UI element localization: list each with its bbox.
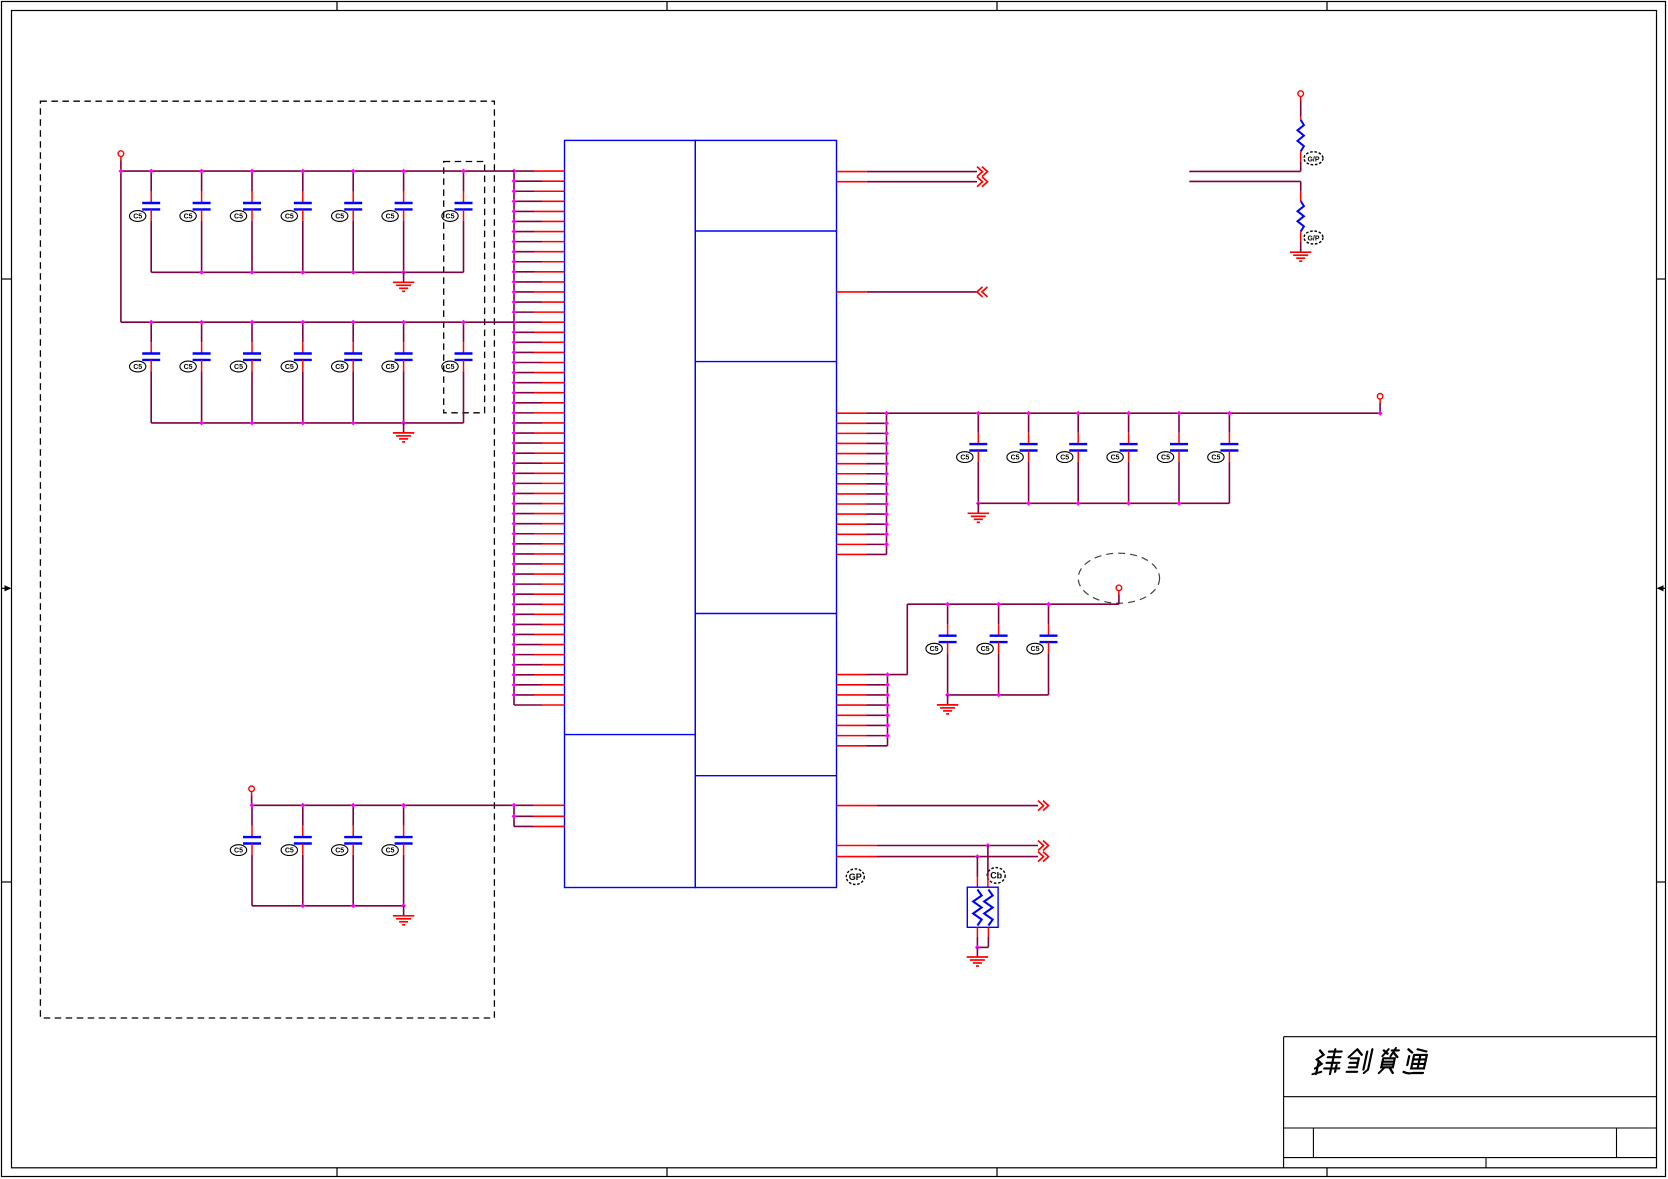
U1 right pin stubs group2	[837, 675, 888, 746]
wire U1 left pin bus chain	[513, 171, 515, 705]
capacitor C2	[180, 171, 211, 272]
junction dots group1	[884, 411, 889, 547]
power node VCC3	[1377, 394, 1383, 400]
dashed sub box (last column caps)	[444, 162, 485, 413]
capacitor C20	[1007, 413, 1038, 503]
capacitor C27	[1027, 604, 1058, 695]
resistor R2	[1298, 181, 1304, 252]
label G/P on R1	[1304, 152, 1323, 165]
capacitor C9	[180, 322, 211, 423]
wire bank6 top bus	[887, 412, 1381, 414]
junction dots bank4	[250, 803, 517, 909]
svg-text:C5: C5	[981, 646, 990, 653]
wire row2 bottom bus	[151, 422, 463, 424]
junction dots row2	[149, 320, 466, 426]
svg-text:C5: C5	[386, 213, 395, 220]
wire net1 to R1	[1189, 170, 1300, 172]
capacitor C14	[442, 322, 473, 423]
svg-text:C5: C5	[234, 848, 243, 855]
ground R2	[1290, 251, 1311, 253]
IC U1 section B dividers	[695, 231, 836, 776]
capacitor C12	[332, 322, 363, 423]
U1 right pin stubs group1	[837, 413, 887, 554]
wire row2 top bus	[121, 321, 514, 323]
wire net6 drop to RN1	[975, 854, 980, 887]
wire output net6	[837, 856, 1039, 858]
wire row1 bottom bus	[151, 271, 463, 273]
capacitor C17	[332, 805, 363, 906]
wire RN1 to ground	[975, 927, 989, 957]
wire output net4	[837, 805, 1039, 807]
label G/P on R2	[1304, 231, 1323, 244]
capacitor C25	[926, 604, 957, 695]
wire row1 left drop to row2	[120, 171, 122, 322]
svg-text:C5: C5	[1211, 455, 1220, 462]
junction dots group2	[885, 672, 890, 738]
junction dots bank6	[976, 411, 1383, 506]
svg-text:C5: C5	[285, 213, 294, 220]
junction row1 corner	[118, 169, 123, 174]
IC U1 section A (left column)	[565, 140, 696, 887]
capacitor C23	[1157, 413, 1188, 503]
svg-text:C5: C5	[234, 364, 243, 371]
IC U1 section B (right column)	[695, 140, 836, 887]
capacitor C13	[382, 322, 413, 423]
junction dots row1	[149, 169, 466, 275]
wire bank4 bottom bus	[252, 905, 404, 907]
wire output net5	[837, 845, 1039, 847]
svg-text:C5: C5	[285, 364, 294, 371]
wire output net2	[837, 181, 978, 183]
svg-text:C5: C5	[1011, 455, 1020, 462]
capacitor C1	[130, 171, 161, 272]
wire bank3 top bus	[907, 603, 1119, 605]
svg-text:C5: C5	[960, 455, 969, 462]
svg-text:C5: C5	[335, 848, 344, 855]
dashed group box (decoupling caps region)	[40, 101, 494, 1018]
svg-text:C5: C5	[930, 646, 939, 653]
IC U1 section A divider	[565, 734, 696, 736]
label Cb	[987, 868, 1005, 884]
svg-text:C5: C5	[386, 848, 395, 855]
off-page connector net5	[1038, 841, 1049, 851]
capacitor C26	[977, 604, 1008, 695]
svg-text:C5: C5	[1111, 455, 1120, 462]
capacitor C11	[281, 322, 312, 423]
power node VCC2	[249, 786, 255, 792]
svg-text:C5: C5	[446, 364, 455, 371]
capacitor C5	[332, 171, 363, 272]
ground row2	[393, 423, 414, 442]
svg-text:Cb: Cb	[990, 871, 1002, 881]
svg-text:C5: C5	[184, 364, 193, 371]
svg-text:C5: C5	[285, 848, 294, 855]
capacitor C15	[230, 805, 261, 906]
svg-text:C5: C5	[335, 364, 344, 371]
off-page connector net6	[1038, 852, 1049, 862]
capacitor C16	[281, 805, 312, 906]
wire net5 drop to RN1	[985, 843, 990, 887]
resistor R1	[1298, 117, 1304, 172]
capacitor C18	[382, 805, 413, 906]
capacitor C24	[1208, 413, 1239, 503]
svg-text:C5: C5	[335, 213, 344, 220]
wire output net1	[837, 171, 978, 173]
wire row1 top bus	[121, 170, 514, 172]
wire bank4 top bus	[252, 804, 565, 806]
ground bank6	[968, 503, 989, 522]
ground bank3	[937, 695, 958, 714]
U1 left pin stubs	[514, 171, 565, 705]
svg-text:C5: C5	[133, 213, 142, 220]
capacitor C21	[1057, 413, 1088, 503]
svg-text:G/P: G/P	[1307, 157, 1319, 164]
capacitor C6	[382, 171, 413, 272]
off-page connector net1	[977, 167, 988, 177]
junction dots bank3	[945, 602, 1051, 698]
wire U1 right pin chain group2	[887, 675, 889, 746]
wire U1 right pin chain group1	[886, 413, 888, 554]
svg-text:C5: C5	[234, 213, 243, 220]
power node VCC5	[1298, 91, 1304, 97]
power node VCC1	[118, 151, 124, 157]
svg-text:C5: C5	[184, 213, 193, 220]
ground bank4	[393, 906, 414, 925]
highlight dashed ellipse	[1078, 553, 1159, 603]
off-page connector net2	[977, 177, 988, 187]
capacitor C19	[957, 413, 988, 503]
wire bank3 bottom bus	[948, 694, 1049, 696]
svg-text:C5: C5	[386, 364, 395, 371]
wire bank4 branch pins	[514, 805, 565, 826]
svg-text:C5: C5	[1060, 455, 1069, 462]
wire input net3	[837, 291, 978, 293]
label GP	[846, 869, 864, 885]
svg-text:C5: C5	[1161, 455, 1170, 462]
svg-text:C5: C5	[1031, 646, 1040, 653]
power node VCC4	[1116, 585, 1122, 591]
svg-text:GP: GP	[849, 872, 862, 882]
resistor pack RN1	[967, 887, 998, 927]
off-page connector net4	[1038, 801, 1049, 811]
svg-text:C5: C5	[446, 213, 455, 220]
ground row1	[393, 272, 414, 291]
off-page connector net3	[977, 287, 988, 297]
capacitor C22	[1107, 413, 1138, 503]
wire net2 to R2	[1189, 180, 1300, 182]
capacitor C10	[230, 322, 261, 423]
capacitor C4	[281, 171, 312, 272]
ground RN1	[967, 956, 988, 958]
capacitor C7	[442, 171, 473, 272]
svg-text:C5: C5	[133, 364, 142, 371]
junction dots U1 left pins	[512, 169, 517, 698]
capacitor C3	[230, 171, 261, 272]
wire bank3 left drop	[888, 604, 908, 674]
svg-text:G/P: G/P	[1307, 236, 1319, 243]
wire bank6 bottom bus	[978, 502, 1229, 504]
capacitor C8	[130, 322, 161, 423]
